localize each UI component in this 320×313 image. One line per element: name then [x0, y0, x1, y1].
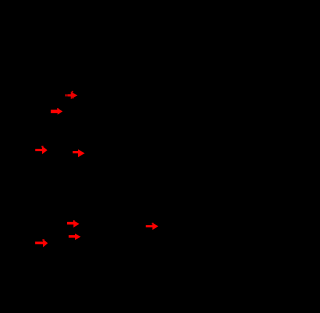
annotation arrow 5 (points right)	[67, 220, 79, 227]
annotation arrow 3 (points right, left side)	[35, 146, 47, 155]
annotation arrow 7 (points right, lower left)	[35, 239, 48, 247]
annotation arrow 1 (points right, near top)	[65, 91, 78, 99]
annotation arrow 2 (points right)	[51, 108, 63, 114]
annotation arrow 4 (points right)	[73, 149, 85, 157]
annotation arrow 8 (points right, right side)	[146, 223, 159, 230]
annotation arrow 6 (points right)	[69, 234, 81, 241]
